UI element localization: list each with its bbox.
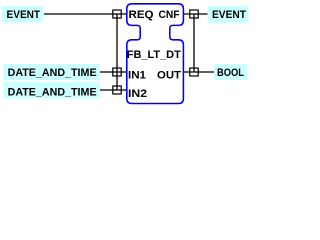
wire DATE_AND_TIME to IN1 xyxy=(100,71,127,73)
svg-text:FB_LT_DT: FB_LT_DT xyxy=(127,49,181,61)
wire CNF output to EVENT xyxy=(183,13,207,15)
wire left vertical bus xyxy=(116,14,118,90)
svg-text:CNF: CNF xyxy=(159,9,180,21)
variable label DATE_AND_TIME (IN1) xyxy=(3,64,100,80)
junction node right OUT xyxy=(190,68,198,76)
junction node right CNF xyxy=(190,10,198,18)
junction node left IN2 xyxy=(113,86,121,94)
variable label DATE_AND_TIME (IN2) xyxy=(3,82,100,98)
svg-text:EVENT: EVENT xyxy=(7,9,41,21)
svg-text:OUT: OUT xyxy=(157,69,181,81)
pin label IN2 xyxy=(128,88,147,100)
wire OUT to BOOL xyxy=(183,71,214,73)
pin label OUT xyxy=(157,69,181,81)
junction node left IN1 xyxy=(113,68,121,76)
svg-text:IN2: IN2 xyxy=(128,88,147,100)
block name FB_LT_DT xyxy=(127,49,181,61)
wire EVENT input to REQ xyxy=(44,13,127,15)
pin label IN1 xyxy=(128,69,146,81)
svg-text:IN1: IN1 xyxy=(128,69,146,81)
svg-text:EVENT: EVENT xyxy=(212,9,246,21)
wire right vertical bus xyxy=(193,14,195,72)
wire DATE_AND_TIME to IN2 xyxy=(100,89,127,91)
function block FB_LT_DT outline xyxy=(127,4,184,104)
pin label REQ xyxy=(129,9,154,21)
variable label EVENT (right output) xyxy=(208,6,249,23)
svg-text:DATE_AND_TIME: DATE_AND_TIME xyxy=(8,67,97,79)
svg-text:DATE_AND_TIME: DATE_AND_TIME xyxy=(8,86,97,98)
variable label EVENT (left input) xyxy=(2,6,44,22)
svg-text:BOOL: BOOL xyxy=(217,67,244,79)
junction node left REQ xyxy=(113,10,121,18)
pin label CNF xyxy=(159,9,180,21)
variable label BOOL (OUT) xyxy=(214,64,247,80)
svg-text:REQ: REQ xyxy=(129,9,154,21)
